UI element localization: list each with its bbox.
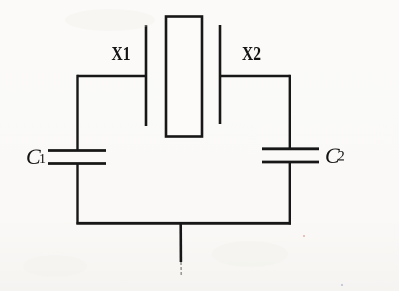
capacitor C1 top plate xyxy=(48,149,106,152)
wire: right plate to right branch xyxy=(220,75,290,77)
wire: right vertical down to C2 xyxy=(289,75,291,150)
capacitor C2 top plate xyxy=(262,147,319,150)
wire: left vertical down to C1 xyxy=(76,75,78,151)
wire: center output stub below rail xyxy=(179,223,182,262)
svg-text:1: 1 xyxy=(39,152,46,167)
wire: C2 down to bottom rail xyxy=(289,162,291,225)
crystal left electrode plate xyxy=(145,25,148,126)
svg-text:2: 2 xyxy=(338,149,345,165)
capacitor C1 bottom plate xyxy=(48,162,106,165)
svg-text:X2: X2 xyxy=(242,43,261,65)
wire: left plate to left branch xyxy=(77,75,146,77)
svg-text:X1: X1 xyxy=(112,43,131,65)
crystal right electrode plate xyxy=(219,25,222,124)
wire: bottom rail xyxy=(76,222,291,225)
crystal Y1 body xyxy=(166,17,202,137)
wire: C1 down to bottom rail xyxy=(76,164,78,225)
wire: faded tail of output stub xyxy=(180,262,182,277)
capacitor C2 bottom plate xyxy=(262,161,319,164)
